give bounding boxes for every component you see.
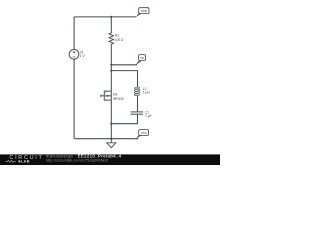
wire left vertical lower [73,59,75,139]
junction node dot top [110,16,112,18]
svg-text:VD: VD [140,56,145,60]
resistor R1 [109,33,113,44]
wire between L1 and C1 [137,95,139,112]
transistor M1 gate lead [101,90,112,101]
transistor M1 gate bar [103,90,105,101]
wire bottom horizontal [74,138,138,140]
junction node dot C1 bottom [110,123,112,125]
junction node dot ground [110,138,112,140]
svg-text:■LAB: ■LAB [18,160,30,164]
transistor M1 drain stub [106,90,111,92]
svg-text:IRF530: IRF530 [113,97,124,101]
wire left vertical upper [73,17,75,50]
transistor M1 body stub [106,95,111,97]
ground [107,139,116,148]
svg-text:http://circuitlab.com/c/75dq3h: http://circuitlab.com/c/75dq3h56kd/ [46,158,109,162]
logo resistor zigzag [6,160,16,162]
voltage source V1 [69,49,79,59]
transistor M1 body arrow [106,95,109,97]
footer watermark bar [0,154,220,165]
node VSS flag [136,130,149,139]
wire top horizontal [74,16,136,18]
transistor M1 source stub [106,99,111,101]
transistor M1 channel dashes [105,90,107,101]
wire right vertical above R1 [110,17,112,33]
wire branch to L1 [111,71,137,88]
junction node dot branch [110,70,112,72]
wire below C1 [111,114,137,124]
svg-text:VDD: VDD [141,9,148,13]
wire right vertical below R1 [110,44,112,139]
node VD flag [136,55,146,65]
capacitor C1 plates [131,112,144,114]
inductor L1 coil [134,87,140,96]
svg-text:1 V: 1 V [80,54,86,58]
node VDD flag [136,8,149,17]
svg-text:100 Ω: 100 Ω [115,38,124,42]
junction node dot VD [110,64,112,66]
svg-text:VSS: VSS [140,131,146,135]
svg-text:1 μH: 1 μH [143,91,150,95]
svg-text:1 μF: 1 μF [145,114,151,118]
wire VD stub [111,64,137,66]
